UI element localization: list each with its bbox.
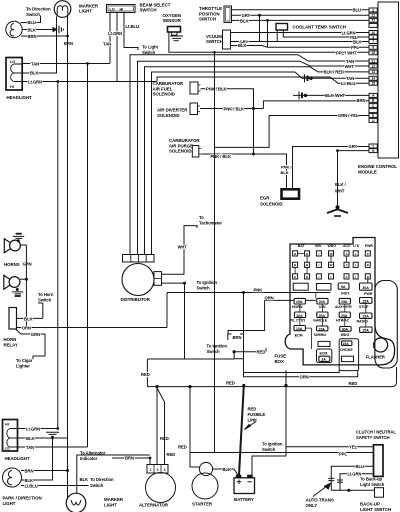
svg-text:BLK / RED: BLK / RED xyxy=(324,70,345,75)
svg-text:LTS: LTS xyxy=(353,244,360,248)
fuse box column headers xyxy=(298,244,374,248)
svg-text:LO: LO xyxy=(110,7,115,11)
wire GRN/YEL to ECM pin E xyxy=(215,116,370,148)
svg-text:21: 21 xyxy=(371,14,375,18)
svg-text:POSITION: POSITION xyxy=(199,11,220,16)
wire GRN horns junction xyxy=(20,245,27,328)
fuse terminal letters xyxy=(294,252,370,279)
svg-text:G: G xyxy=(372,149,375,153)
label VACUUM SWITCH xyxy=(206,34,223,44)
wire BLK vacuum switch (up to throttle BLK), to ECM pin 8 xyxy=(231,20,370,47)
svg-text:SWITCH: SWITCH xyxy=(199,17,216,22)
svg-text:RED: RED xyxy=(178,445,187,450)
wire BRN continues to fuse box lower feed xyxy=(244,340,358,377)
svg-text:14: 14 xyxy=(371,77,375,81)
svg-text:15A: 15A xyxy=(362,315,369,319)
red fusible link cable xyxy=(239,386,244,476)
label RED FUSIBLE LINK with arrow xyxy=(248,407,266,423)
distributor body xyxy=(122,264,154,296)
wire BLK lower marker up xyxy=(77,455,150,493)
horn 1 xyxy=(4,239,20,253)
svg-text:WHT: WHT xyxy=(335,189,345,194)
svg-text:Switch: Switch xyxy=(197,286,211,291)
fuse terminal grid row 1 xyxy=(293,251,371,256)
svg-text:STARTER: STARTER xyxy=(192,502,213,507)
headlight connector (top left) xyxy=(6,58,22,91)
label PPL/WHT pin 10 xyxy=(336,50,357,55)
wire LT BLU distributor bus to ECM pin 15 xyxy=(157,77,369,83)
wire BLU from clutch switch xyxy=(331,466,373,490)
svg-text:PNK / BLK: PNK / BLK xyxy=(211,154,232,159)
label EGR SOLENOID xyxy=(260,196,283,207)
svg-text:To: To xyxy=(199,215,204,220)
distributor cap xyxy=(123,255,155,263)
svg-text:To Back-up: To Back-up xyxy=(360,477,382,482)
svg-text:RED: RED xyxy=(248,407,257,412)
svg-text:L: L xyxy=(330,275,332,279)
trunk wire TAN (left, down to lower headlight) xyxy=(87,64,89,448)
svg-text:E: E xyxy=(294,275,296,279)
svg-text:To Horn: To Horn xyxy=(38,292,54,297)
svg-text:ENGINE CONTROL: ENGINE CONTROL xyxy=(358,164,397,169)
svg-text:2: 2 xyxy=(157,468,159,472)
fuse box outer lid (flasher pocket) xyxy=(375,281,397,369)
svg-text:FUSIBLE: FUSIBLE xyxy=(248,412,266,417)
svg-text:BRN: BRN xyxy=(25,468,34,473)
wire PPL/WHT trunk down (pin10 to clutch PPL) xyxy=(214,52,216,452)
wire BRN ignition feed with bracket xyxy=(228,293,244,341)
svg-text:RED: RED xyxy=(257,350,266,355)
svg-text:To Direction: To Direction xyxy=(26,7,51,12)
wire LT GRN lower headlight xyxy=(17,428,58,430)
empty fuse slot 3 xyxy=(318,341,330,346)
wire ORN from fuse box xyxy=(228,300,316,334)
svg-text:BLU: BLU xyxy=(356,464,364,469)
fuse 20A T/L CTSY xyxy=(294,312,305,318)
wire BRN trunk into lower marker xyxy=(67,471,69,500)
wire BRN from park lamp to BRN trunk xyxy=(21,35,68,37)
label To Back-up Light Switch xyxy=(360,477,385,487)
svg-text:HI: HI xyxy=(5,423,9,427)
svg-text:MARKER: MARKER xyxy=(104,497,124,502)
wire PPL long feed (starter area to clutch switch) xyxy=(190,452,374,454)
svg-text:EGR: EGR xyxy=(260,196,270,201)
svg-text:30A: 30A xyxy=(362,286,369,290)
wire GRY throttle switch to ECM pin 21 xyxy=(232,14,370,16)
svg-text:HEADLIGHT: HEADLIGHT xyxy=(5,456,31,461)
wire YEL coolant switch to ECM pin 3 xyxy=(283,30,369,37)
svg-text:ONLY: ONLY xyxy=(306,503,318,508)
svg-text:To Light: To Light xyxy=(142,45,158,50)
svg-text:BLU: BLU xyxy=(28,20,36,25)
marker light (lower) xyxy=(66,493,86,512)
svg-text:TAN: TAN xyxy=(31,61,39,66)
flasher xyxy=(374,338,388,352)
fuse terminal grid row 3 xyxy=(293,274,371,279)
fuse 30A WDO xyxy=(340,327,351,332)
wire PNK/BLK trunk down to PNK feed xyxy=(253,109,255,155)
label To Ignition Switch (fuse box feed) xyxy=(207,344,228,355)
wire TAN bus to ECM pin 11 xyxy=(130,55,369,255)
label ALTERNATOR xyxy=(139,503,169,508)
svg-text:FLASHER: FLASHER xyxy=(366,355,385,360)
empty fuse slot 1 xyxy=(293,283,308,290)
svg-text:PPL: PPL xyxy=(351,45,359,50)
wire GRN horn relay feed riser xyxy=(166,293,168,328)
svg-text:BRN: BRN xyxy=(28,34,37,39)
svg-text:PWR: PWR xyxy=(365,244,374,248)
wire RED down to starter solenoid xyxy=(190,387,200,467)
svg-text:BRN: BRN xyxy=(233,335,242,340)
wire distributor to ignition switch xyxy=(162,282,185,284)
svg-text:Switch: Switch xyxy=(90,483,104,488)
wire BLK EGR solenoid (right pin) xyxy=(292,146,294,189)
svg-text:Lt.GRN: Lt.GRN xyxy=(108,31,122,36)
svg-text:To Ignition: To Ignition xyxy=(197,280,218,285)
oxygen sensor xyxy=(168,27,181,36)
svg-text:25A: 25A xyxy=(341,314,348,318)
wire PNK/BLK from air purge solenoid xyxy=(201,154,286,189)
wire RED feed to alternator pin 3 xyxy=(157,388,165,465)
wire BLK/WHT to ECM pin A (with inline connector) xyxy=(293,94,369,96)
svg-text:SOLENOID: SOLENOID xyxy=(169,149,192,154)
svg-text:AUTO TRANS: AUTO TRANS xyxy=(306,498,334,503)
wire GRY vacuum switch (up to throttle GRY) xyxy=(231,15,370,41)
label THROTTLE POSITION SWITCH xyxy=(199,6,222,22)
svg-text:Indicator: Indicator xyxy=(80,456,98,461)
svg-text:LIGHT: LIGHT xyxy=(3,501,16,506)
label BATTERY xyxy=(234,497,254,502)
wire TAN distributor bus to ECM pin 14 (with inline connector) xyxy=(152,72,370,255)
fuse 25A HTR/AC xyxy=(339,312,350,318)
svg-text:ALTERNATOR: ALTERNATOR xyxy=(139,503,169,508)
wire YEL to clutch switch xyxy=(286,446,374,448)
svg-text:To Direction: To Direction xyxy=(90,477,114,482)
fuse box outline xyxy=(285,238,394,365)
svg-text:LO: LO xyxy=(10,60,15,64)
svg-text:IGN: IGN xyxy=(315,244,322,248)
throttle position switch connector xyxy=(224,6,232,23)
svg-text:SWITCH: SWITCH xyxy=(140,8,157,13)
label MARKER LIGHT (top) xyxy=(79,4,99,14)
wire PNK/BLK from air diverter solenoid (junction) xyxy=(200,108,263,110)
svg-text:PNK / BLK: PNK / BLK xyxy=(224,106,245,111)
svg-text:AIR FUEL: AIR FUEL xyxy=(153,86,173,91)
wire BLK horn relay to horn switch xyxy=(17,317,43,319)
wire alternator feed junction xyxy=(147,358,234,360)
label COOLANT TEMP. SWITCH xyxy=(293,25,346,30)
svg-text:L: L xyxy=(355,263,357,267)
svg-text:STOP: STOP xyxy=(359,305,369,309)
svg-text:Lt.BLU: Lt.BLU xyxy=(126,24,139,29)
svg-text:20A: 20A xyxy=(319,314,326,318)
wire ORN horn relay feed xyxy=(17,327,168,329)
ground (lower headlight) xyxy=(46,432,59,438)
svg-text:25A: 25A xyxy=(362,329,369,333)
label BEAM SELECT SWITCH xyxy=(140,2,171,12)
svg-text:Lighter: Lighter xyxy=(16,363,30,368)
engine control module U1 xyxy=(378,2,399,158)
wire PPL/WHT from oxygen sensor to ECM pin 10 xyxy=(169,32,369,52)
svg-text:BLK: BLK xyxy=(24,316,32,321)
wire LT GRN from beam select down xyxy=(116,13,118,82)
back-up light switch xyxy=(375,488,384,498)
svg-text:RADIO: RADIO xyxy=(357,320,369,324)
label To Horn Switch xyxy=(38,292,54,303)
svg-text:TAN: TAN xyxy=(103,41,111,46)
wire to back-up light switch xyxy=(331,489,374,491)
wire BLU throttle switch to ECM pin 2 xyxy=(232,9,370,11)
svg-text:ORN: ORN xyxy=(300,375,309,380)
svg-text:3A: 3A xyxy=(321,358,326,362)
ground (marker light, comb right) xyxy=(53,24,63,35)
svg-text:HORNS: HORNS xyxy=(4,262,20,267)
wire LT GRN from headlight (to trunk + dimmer) xyxy=(22,81,157,83)
wire PWR column feed xyxy=(367,279,369,283)
svg-text:Tachometer: Tachometer xyxy=(199,221,222,226)
alternator body xyxy=(146,473,176,503)
ECM connector pin boxes with pin numbers xyxy=(369,8,377,153)
svg-text:15: 15 xyxy=(371,82,375,86)
svg-text:BLK: BLK xyxy=(223,467,231,472)
svg-text:5A: 5A xyxy=(341,285,346,289)
svg-text:BLK: BLK xyxy=(353,39,361,44)
label FUSE BOX xyxy=(275,354,287,365)
fuse 20A HORN xyxy=(294,298,305,304)
connector links inside fuse box xyxy=(300,293,366,349)
svg-text:BLK: BLK xyxy=(28,27,36,32)
svg-text:BLK: BLK xyxy=(25,478,33,483)
wire LT BLU lower park lamp to direction switch xyxy=(21,485,89,487)
svg-text:BLU: BLU xyxy=(353,8,361,13)
svg-text:BACK-UP: BACK-UP xyxy=(360,502,380,507)
svg-text:LI. BLU: LI. BLU xyxy=(341,81,355,86)
svg-text:SOLENOID: SOLENOID xyxy=(157,113,180,118)
label OXYGEN SENSOR xyxy=(163,13,182,23)
wire BLK lower headlight to ground xyxy=(18,437,68,439)
svg-text:HI: HI xyxy=(120,7,124,11)
svg-text:1: 1 xyxy=(150,468,152,472)
fuse 15A RADIO xyxy=(360,313,373,318)
svg-text:BAT: BAT xyxy=(298,244,306,248)
svg-text:PNK / BLK: PNK / BLK xyxy=(206,87,227,92)
svg-text:ECM: ECM xyxy=(295,333,303,337)
svg-text:GRN / YEL: GRN / YEL xyxy=(338,113,359,118)
fuse 20A IGN xyxy=(317,298,328,304)
svg-text:Lt.GRN: Lt.GRN xyxy=(28,79,42,84)
label HORNS / GRN xyxy=(4,262,32,267)
svg-text:RED: RED xyxy=(141,372,150,377)
svg-text:BATTERY: BATTERY xyxy=(234,497,254,502)
svg-text:20A: 20A xyxy=(296,314,303,318)
inline connector symbol on pin 14 wire xyxy=(305,74,313,82)
svg-text:TAN: TAN xyxy=(26,445,34,450)
svg-text:P: P xyxy=(367,252,369,256)
wire PNK/BLK from air fuel solenoid xyxy=(201,89,254,109)
beam select switch connector xyxy=(107,5,136,13)
svg-text:HI: HI xyxy=(10,85,14,89)
svg-text:3: 3 xyxy=(164,468,166,472)
svg-text:ACC: ACC xyxy=(343,244,351,248)
svg-text:CLUTCH / NEUTRAL: CLUTCH / NEUTRAL xyxy=(356,430,396,435)
svg-text:LO: LO xyxy=(5,447,10,451)
svg-text:DISTRIBUTOR: DISTRIBUTOR xyxy=(121,297,151,302)
svg-text:BLK: BLK xyxy=(80,477,88,482)
fuse 20A GA/IDLE xyxy=(317,312,328,318)
trunk wire BRN (left, down to lower park lamp) xyxy=(67,36,69,471)
svg-text:THROTTLE: THROTTLE xyxy=(199,6,222,11)
wire RED fuse box to battery positive xyxy=(252,370,286,475)
svg-text:FUSE: FUSE xyxy=(275,354,287,359)
svg-text:20A: 20A xyxy=(296,300,303,304)
svg-text:SENSOR: SENSOR xyxy=(163,18,182,23)
svg-text:PWR: PWR xyxy=(364,292,373,296)
svg-text:WHT: WHT xyxy=(345,64,355,69)
wire RED ignition to fuse box xyxy=(234,348,266,351)
label MARKER LIGHT (lower) xyxy=(104,497,124,508)
wire BRN to ECM pin B xyxy=(263,101,369,109)
svg-text:15A: 15A xyxy=(318,327,325,331)
clutch / neutral safety switch xyxy=(374,445,384,477)
headlight connector (lower) xyxy=(3,420,18,452)
label To Direction Switch (lower) xyxy=(90,477,114,488)
svg-text:BRN: BRN xyxy=(357,98,366,103)
wire BLU from park lamp to direction switch bracket xyxy=(21,16,41,23)
svg-text:BLK /WHT: BLK /WHT xyxy=(325,93,346,98)
svg-text:30A: 30A xyxy=(342,328,349,332)
svg-text:To Alternator: To Alternator xyxy=(80,451,106,456)
svg-text:11: 11 xyxy=(371,59,375,63)
fuse 30A PWR xyxy=(360,283,373,290)
marker light (top) xyxy=(54,1,71,36)
ground (horn 1, above) xyxy=(13,234,24,243)
wire LT GRN from clutch switch xyxy=(340,474,374,491)
arrow AUTO TRANS ONLY xyxy=(313,486,328,497)
svg-text:WHT: WHT xyxy=(178,245,188,250)
svg-text:BLK /: BLK / xyxy=(335,182,347,187)
svg-text:7: 7 xyxy=(372,40,374,44)
label HEADLIGHT (top) xyxy=(7,95,33,100)
svg-text:GRY: GRY xyxy=(242,13,251,18)
label CLUTCH / NEUTRAL SAFETY SWITCH xyxy=(356,430,396,441)
horn relay K1 xyxy=(9,308,17,330)
svg-text:BOX: BOX xyxy=(275,359,284,364)
svg-text:13: 13 xyxy=(371,70,375,74)
wire BRN lower park lamp xyxy=(21,470,68,472)
alternator connector xyxy=(147,465,168,474)
wire BLK starter to battery xyxy=(213,469,238,475)
wire WHT distributor bus to ECM pin 12 xyxy=(138,61,370,255)
svg-text:To Ignition: To Ignition xyxy=(262,441,283,446)
distributor side connector xyxy=(154,272,162,286)
svg-text:GRN: GRN xyxy=(23,262,32,267)
svg-text:T/L CTSY: T/L CTSY xyxy=(290,319,306,323)
label CARBURATOR AIR PURGE SOLENOID xyxy=(169,138,200,154)
svg-text:Switch: Switch xyxy=(38,298,52,303)
label HEADLIGHT (lower) xyxy=(5,456,31,461)
svg-text:HORN: HORN xyxy=(4,337,17,342)
wire RED main feed line xyxy=(147,367,396,387)
wire GRY to ECM pin T (diagnostic) xyxy=(293,147,370,190)
svg-text:2: 2 xyxy=(372,8,374,12)
svg-text:W: W xyxy=(330,252,333,256)
wire PNK to fuse box xyxy=(167,292,330,294)
ground (oxygen sensor) xyxy=(170,36,183,41)
coolant temp switch connector xyxy=(276,24,288,31)
wire ignition junction down to lower feed xyxy=(234,352,243,359)
wire TAN from headlight (to trunk + beam select) xyxy=(22,63,110,65)
air diverter solenoid xyxy=(190,103,200,115)
svg-text:Switch: Switch xyxy=(207,349,221,354)
svg-text:To Ignition: To Ignition xyxy=(207,344,228,349)
svg-text:BLK: BLK xyxy=(238,43,246,48)
svg-text:BLK: BLK xyxy=(30,70,38,75)
svg-text:BRN: BRN xyxy=(64,41,73,46)
wire BLK from park lamp to marker ground xyxy=(22,29,54,31)
svg-text:YEL: YEL xyxy=(350,35,358,40)
svg-text:L: L xyxy=(355,252,357,256)
label BRN on marker trunk xyxy=(64,41,73,46)
ground (ECM BLK/WHT) xyxy=(327,151,348,216)
svg-text:PPL / WHT: PPL / WHT xyxy=(336,50,357,55)
svg-text:20: 20 xyxy=(371,31,375,35)
svg-text:10A: 10A xyxy=(296,327,303,331)
wire BLK lower park lamp to ground stem xyxy=(22,438,53,480)
svg-text:15A: 15A xyxy=(342,342,349,346)
svg-text:HORN: HORN xyxy=(292,305,303,309)
svg-text:SOLENOID: SOLENOID xyxy=(260,202,283,207)
label PARK / DIRECTION LIGHT xyxy=(3,496,42,507)
svg-text:MODULE: MODULE xyxy=(358,170,377,175)
vacuum switch connector xyxy=(223,30,231,49)
wire TAN from beam select down xyxy=(109,13,111,64)
label AIR DIVERTER SOLENOID xyxy=(157,108,188,118)
svg-text:10: 10 xyxy=(371,51,375,55)
svg-text:HEADLIGHT: HEADLIGHT xyxy=(7,95,33,100)
carburator air fuel solenoid xyxy=(190,82,201,94)
svg-text:LI.BLU: LI.BLU xyxy=(25,483,38,488)
svg-text:SOLENOID: SOLENOID xyxy=(153,92,176,97)
wire to ECM pin G with ground branch xyxy=(338,150,370,152)
label STARTER xyxy=(192,502,213,507)
wire BLK throttle switch to ECM pin 22 xyxy=(232,19,370,21)
label BACK-UP LIGHT SWITCH xyxy=(360,502,391,512)
svg-text:YEL: YEL xyxy=(349,445,357,450)
svg-text:LIGHT: LIGHT xyxy=(79,9,92,14)
EGR solenoid xyxy=(282,189,300,198)
svg-text:INST.: INST. xyxy=(341,292,350,296)
svg-text:WDO: WDO xyxy=(341,333,350,337)
carburator air purge solenoid xyxy=(192,146,201,158)
svg-text:25A: 25A xyxy=(341,300,348,304)
svg-text:Switch: Switch xyxy=(142,50,156,55)
empty fuse slot 2 xyxy=(317,284,332,291)
svg-text:GRY: GRY xyxy=(349,144,358,149)
svg-text:AIR PURGE: AIR PURGE xyxy=(169,143,193,148)
fuse 15A DIR/BU xyxy=(317,326,328,331)
svg-text:8: 8 xyxy=(372,46,374,50)
wire horn switch bracket xyxy=(38,303,43,318)
svg-text:ORN: ORN xyxy=(265,296,274,301)
svg-text:20A: 20A xyxy=(319,300,326,304)
fuse 25A AUX+HTR xyxy=(339,298,350,304)
park/direction light (lower) xyxy=(3,468,22,487)
svg-text:DIR/BU: DIR/BU xyxy=(314,333,327,337)
svg-text:SAFETY SWITCH: SAFETY SWITCH xyxy=(356,435,389,440)
svg-text:LIGHT SWITCH: LIGHT SWITCH xyxy=(360,507,391,512)
wire WHT distributor to tachometer xyxy=(162,226,198,275)
svg-text:Switch: Switch xyxy=(26,12,40,17)
